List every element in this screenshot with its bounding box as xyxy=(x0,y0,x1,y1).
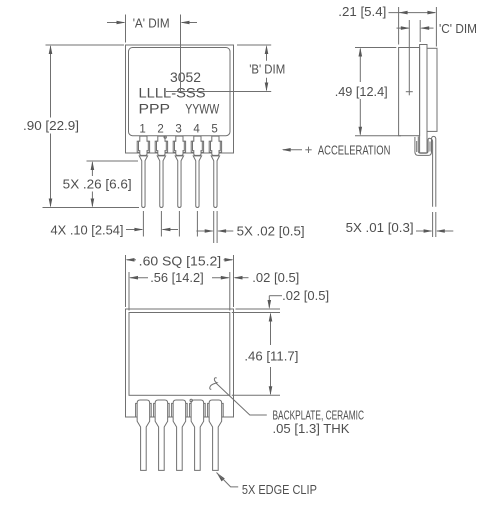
dimension .46 vertical line lower segment xyxy=(270,367,272,394)
pin 6 edge clip and lead (back view) xyxy=(136,403,152,417)
back view lid bottom extension line xyxy=(232,394,280,396)
back view lid top extension line xyxy=(232,312,280,314)
acceleration direction arrow xyxy=(283,149,302,151)
svg-text:'C' DIM: 'C' DIM xyxy=(439,21,477,36)
back view outer square (ceramic backplate) xyxy=(126,309,234,417)
svg-text:5X EDGE CLIP: 5X EDGE CLIP xyxy=(242,482,317,497)
pin 3 pitch extension line xyxy=(178,211,180,237)
svg-text:.56 [14.2]: .56 [14.2] xyxy=(150,270,204,285)
svg-text:4: 4 xyxy=(193,124,200,136)
dimension .90 vertical line upper segment xyxy=(50,46,52,117)
dimension .21 left extension line xyxy=(398,7,400,45)
dimension 'B' DIM bottom extension line (marking strike-through) xyxy=(166,91,271,93)
pin 1 index dot (front view) xyxy=(164,136,166,138)
dimension 'A' DIM centre line through package xyxy=(180,15,182,92)
pin 4 edge clip and lead (front view) xyxy=(191,141,203,152)
dimension .49 bottom extension line xyxy=(355,135,401,137)
dimension 'A' DIM right arrow xyxy=(182,22,197,24)
svg-text:.05 [1.3] THK: .05 [1.3] THK xyxy=(273,421,350,436)
pin 3 edge clip and lead (front view) xyxy=(173,141,185,152)
dimension 'B' DIM top extension line xyxy=(237,44,271,46)
svg-text:.46 [11.7]: .46 [11.7] xyxy=(244,349,298,364)
pin 3 edge clip and lead (back view) xyxy=(190,403,206,417)
pin 5 edge clip and lead (back view) xyxy=(154,403,170,417)
front view package outer square (ceramic backplate outline) xyxy=(126,45,234,153)
side view centre line xyxy=(408,20,410,95)
back view lid outline rectangle xyxy=(129,313,230,396)
backplate leader squiggle xyxy=(210,378,217,390)
dimension 'A' DIM left extension line xyxy=(125,15,127,43)
svg-text:.49 [12.4]: .49 [12.4] xyxy=(335,84,388,99)
svg-text:.90 [22.9]: .90 [22.9] xyxy=(23,118,79,133)
backplate leader line xyxy=(216,383,267,415)
dimension 4X .10 right arrow xyxy=(163,229,178,231)
svg-text:1: 1 xyxy=(139,124,145,136)
dimension .90 vertical line lower segment xyxy=(50,134,52,207)
pin 4 edge clip and lead (back view) xyxy=(172,403,188,417)
side view centre mark plus xyxy=(406,91,413,93)
svg-text:LLLL-SSS: LLLL-SSS xyxy=(139,85,206,101)
svg-text:.21 [5.4]: .21 [5.4] xyxy=(338,4,386,19)
pin 1 edge clip and lead (front view) xyxy=(137,141,149,152)
dimension .56 left extension line xyxy=(128,272,130,311)
svg-text:'B' DIM: 'B' DIM xyxy=(249,62,285,77)
svg-text:.02 [0.5]: .02 [0.5] xyxy=(252,270,299,285)
pin 5 edge clip and lead (front view) xyxy=(209,141,221,152)
svg-text:.60 SQ [15.2]: .60 SQ [15.2] xyxy=(139,254,222,269)
dimension 5X .02 left arrow xyxy=(196,230,212,232)
svg-text:2: 2 xyxy=(157,124,163,136)
dimension 5X .02 right arrow xyxy=(218,230,233,232)
svg-text:5X .02 [0.5]: 5X .02 [0.5] xyxy=(237,224,305,239)
dimension 'A' DIM left arrow xyxy=(107,22,124,24)
dimension .49 vertical line lower segment xyxy=(359,99,361,135)
dimension .21 line with outward arrows xyxy=(389,12,436,14)
pin 1 index dot (back view) xyxy=(190,399,192,401)
dimension .21 right extension line xyxy=(435,7,437,47)
dimension 'B' DIM upper arrow xyxy=(266,47,268,61)
svg-text:ACCELERATION: ACCELERATION xyxy=(318,143,391,158)
dimension .90 bottom extension line xyxy=(43,207,140,209)
pin 1 pitch extension line xyxy=(142,211,144,237)
dimension .90 top extension line xyxy=(46,44,125,46)
dimension .60 line with outward arrows xyxy=(127,259,136,261)
pin 2 edge clip and lead (front view) xyxy=(155,141,167,152)
svg-text:YYWW: YYWW xyxy=(185,101,220,117)
svg-text:5X .01 [0.3]: 5X .01 [0.3] xyxy=(346,220,414,235)
dimension .49 vertical line upper segment xyxy=(359,49,361,82)
dimension .60 left extension line xyxy=(125,255,127,307)
side view edge clip crimp marks xyxy=(416,141,418,152)
pin 4 pitch extension line xyxy=(196,211,198,237)
pin 5 lead width extension lines xyxy=(213,211,215,243)
dimension .49 top extension line xyxy=(355,47,396,49)
svg-text:5: 5 xyxy=(211,124,217,136)
dimension 4X .10 left arrow xyxy=(126,229,142,231)
dimension .26 extension line xyxy=(87,160,139,162)
dimension .02 bent leader and down arrow xyxy=(269,295,282,297)
svg-text:PPP: PPP xyxy=(139,101,171,117)
dimension .60 right extension line xyxy=(233,255,235,307)
svg-text:'A' DIM: 'A' DIM xyxy=(133,16,170,31)
svg-text:4X .10 [2.54]: 4X .10 [2.54] xyxy=(51,223,124,238)
side view lid body rectangle xyxy=(399,48,420,136)
side view edge-clip plane rectangle xyxy=(427,48,437,131)
dimension .26 vertical line upper segment xyxy=(91,162,93,176)
dimension .56 right extension line xyxy=(229,272,231,311)
dimension 'C' right arrow xyxy=(421,27,433,29)
dimension 5X .01 left arrow xyxy=(416,230,431,232)
edge clip leader arrow xyxy=(217,473,225,482)
dimension 'C' left arrow xyxy=(397,27,409,29)
dimension .26 vertical line lower segment xyxy=(91,192,93,207)
svg-text:5X .26 [6.6]: 5X .26 [6.6] xyxy=(63,177,132,192)
acceleration plus sign xyxy=(305,149,311,151)
dimension .46 vertical line upper segment xyxy=(270,314,272,345)
side lead width extension lines xyxy=(432,212,434,237)
back view outer top extension line xyxy=(236,308,281,310)
dimension .02 side arrow xyxy=(235,277,249,279)
side view edge clip J-hook xyxy=(415,136,436,206)
pin 2 pitch extension line xyxy=(160,211,162,237)
svg-text:3052: 3052 xyxy=(170,69,201,85)
svg-text:.02 [0.5]: .02 [0.5] xyxy=(282,288,329,303)
dimension 'B' DIM lower arrow xyxy=(266,78,268,90)
dimension .56 line with outward arrows xyxy=(130,277,148,279)
svg-text:3: 3 xyxy=(175,124,181,136)
dimension 5X .01 right arrow xyxy=(437,230,453,232)
dimension 'C' right extension line xyxy=(419,20,421,42)
front view lid (rounded cover outline) xyxy=(129,48,231,136)
pin 2 edge clip and lead (back view) xyxy=(208,403,224,417)
side view ceramic backplate bar xyxy=(420,45,427,153)
